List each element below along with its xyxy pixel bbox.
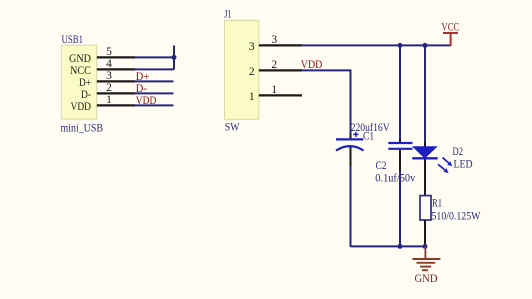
svg-text:VCC: VCC [441,20,459,34]
pin 2 of J1 [259,59,302,71]
wire vertical tie GND/NCC [173,45,175,69]
svg-text:USB1: USB1 [62,32,84,46]
pin 2 of USB1 [97,82,135,94]
wire VDD (USB) [135,104,174,106]
wire D+ [135,80,174,82]
junction top rail LED [423,43,428,48]
wire VDD vertical lower [350,166,352,247]
capacitor C1 [336,120,390,166]
svg-text:2: 2 [106,82,112,94]
svg-text:VDD: VDD [136,93,157,107]
svg-text:3: 3 [271,34,277,46]
pin 1 of USB1 [97,94,135,106]
svg-text:LED: LED [454,157,473,171]
svg-text:VDD: VDD [71,99,92,113]
wire C2 branch lower [399,170,401,247]
power port GND [412,246,440,284]
wire VDD vertical upper [350,69,352,133]
wire pin4 to tie [135,68,175,70]
wire VDD horizontal [302,69,351,71]
svg-text:4: 4 [106,58,112,70]
svg-text:2: 2 [271,59,277,71]
wire D- [135,92,174,94]
pin 4 of USB1 [97,58,135,70]
junction top rail C2 [398,43,403,48]
svg-text:VDD: VDD [301,57,323,71]
junction bottom rail GND [423,244,428,249]
svg-text:5: 5 [106,46,112,58]
connector J1 [224,7,259,134]
svg-text:1: 1 [271,84,277,96]
svg-text:0.1uf/50v: 0.1uf/50v [375,171,415,185]
svg-text:3: 3 [106,70,112,82]
pin 3 of USB1 [97,70,135,82]
svg-text:SW: SW [225,120,240,134]
resistor R1 [420,196,481,247]
wire C2 branch upper [399,45,401,139]
power port VCC [441,20,459,46]
pin 5 of USB1 [97,46,135,58]
svg-text:1: 1 [106,94,112,106]
wire pin5 to tie [135,56,175,58]
pin 1 of J1 [259,84,302,96]
capacitor C2 [375,139,415,185]
svg-text:GND: GND [415,271,438,285]
svg-text:J1: J1 [224,7,231,21]
wire LED branch upper [424,45,426,142]
connector USB1 [61,32,104,135]
svg-text:510/0.125W: 510/0.125W [432,209,481,223]
svg-text:1: 1 [249,91,255,103]
svg-text:mini_USB: mini_USB [61,121,104,135]
wire top rail to VCC [302,44,451,46]
pin 3 of J1 [259,34,302,46]
junction at pin5 tie [172,55,177,60]
junction bottom rail C2 [398,244,403,249]
diode D2 LED [412,142,473,196]
svg-text:3: 3 [249,41,255,53]
svg-text:C1: C1 [363,128,374,142]
svg-text:2: 2 [249,66,255,78]
wire bottom rail [351,245,426,247]
